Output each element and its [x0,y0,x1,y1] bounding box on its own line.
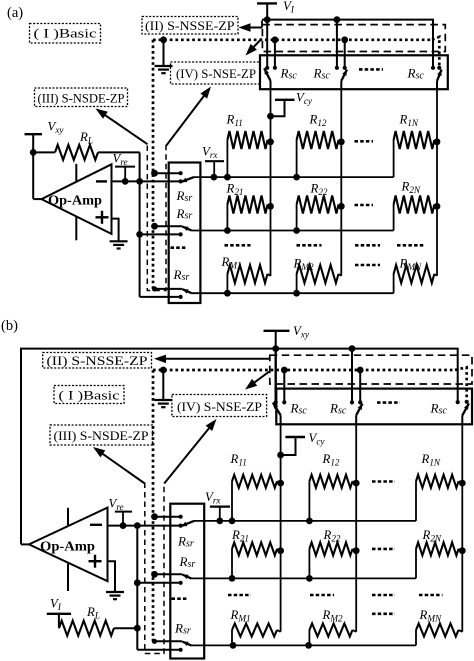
wire row2 (a) [192,230,394,232]
node row2 lower tap (b) [134,579,141,586]
resistor R12 (a) [297,131,345,177]
switch Rsc column1 (b) [273,349,287,425]
svg-text:(III) S-NSDE-ZP: (III) S-NSDE-ZP [38,90,125,105]
ellipsis columns (a) [359,68,383,71]
wire row1 (a) [194,176,394,178]
op-amp minus input sign (b) [90,524,102,526]
scheme box (II) S-NSSE-ZP (b) [43,353,152,369]
resistor R21 (b) [232,542,284,578]
op-amp plus input sign (a) [96,211,109,224]
ellipsis rows gap mid (a) [355,244,380,247]
resistor RM2 (b) [309,624,356,646]
switch Rsr row1 (a) [155,171,195,183]
ground top (a) [155,40,173,73]
resistor RM2 (a) [297,265,342,293]
resistor R1N (b) [416,475,466,521]
svg-text:(III) S-NSDE-ZP: (III) S-NSDE-ZP [54,428,149,443]
svg-text:(IV) S-NSE-ZP: (IV) S-NSE-ZP [177,399,262,414]
arrow to (II) box (a) [239,21,263,32]
node row2 upper tap (b) [151,571,158,578]
svg-text:Op-Amp: Op-Amp [40,539,95,554]
terminal Vrx (a) [202,145,224,178]
resistor RL (a) [33,145,139,182]
panel label (b) [1,318,18,334]
label RM1 (b) [230,608,251,624]
resistor R21 (a) [227,196,274,231]
label Rsc columnN (b) [430,401,448,417]
label R2N (a) [401,180,421,196]
label R2N (b) [422,528,442,544]
label Rsr rowM (a) [173,267,190,283]
resistor R12 (b) [309,475,359,521]
label R22 (a) [310,182,328,198]
node R22 drop (b) [306,575,313,582]
ellipsis rows box (b) [172,597,189,600]
dashed region rows (b) [145,483,164,654]
arrow to (IV) box long (b) [164,419,216,484]
column switch box (a) [260,55,448,89]
label R1N (b) [421,452,441,468]
arrow to (III) box (b) [93,447,145,484]
scheme box (I) Basic (b) [54,386,124,404]
node Vxy / RL junction (a) [30,149,37,156]
svg-text:( I )Basic: ( I )Basic [59,387,120,402]
ellipsis columns (b) [377,401,400,404]
scheme box (II) S-NSSE-ZP [142,17,238,35]
wire inverting input line (b) [108,525,180,527]
ellipsis rows box (a) [171,246,188,249]
label RMN (b) [419,608,442,624]
node feedback junction (a) [136,178,143,185]
node row1 upper tap (a) [151,170,158,177]
label R1N (a) [399,113,419,129]
zero-potential dotted bus (b) [153,367,467,641]
scheme box (I) Basic [30,24,101,44]
node row2 lower tap (a) [136,231,143,238]
terminal Vrx (b) [205,490,230,521]
dashed region rows (a) [147,146,166,291]
ellipsis row2 gap (b) [372,548,395,551]
wire output loop border (b) [21,349,458,545]
node RM1 drop (b) [230,642,237,649]
ellipsis rows gap mid2 (a) [355,264,380,267]
node col2 Vxy tap (b) [349,345,356,352]
terminal VI (b) [47,597,71,629]
arrow to (IV) box short (b) [245,372,269,390]
scheme box (III) S-NSDE-ZP [35,88,128,107]
resistor RMN (a) [394,265,437,293]
resistor R2N (a) [394,196,441,231]
ellipsis rows gap col1 (b) [228,594,251,597]
ellipsis rows gap colN (a) [397,244,424,247]
wire op-amp output to Vxy (a) [33,198,41,200]
node RM1 drop (a) [224,290,231,297]
label RM2 (a) [293,257,314,273]
label Rsr rowM (b) [174,621,191,637]
label RMN (a) [399,257,422,273]
node col2 right contact tap (b) [357,367,364,374]
resistor R22 (a) [297,196,345,231]
label R12 (b) [322,452,340,468]
column switch box (b) [276,389,472,425]
resistor R11 (a) [227,131,274,177]
op-amp U1 (a) [42,164,112,240]
row switch box (a) [169,163,201,304]
zero-potential dotted bus (a) [153,37,439,289]
label Rsr row1 (a) [176,188,193,204]
ellipsis rows gap mid (b) [372,594,395,597]
switch Rsc column2 (b) [350,349,363,425]
resistor R2N (b) [416,542,466,578]
scheme box (IV) S-NSE-ZP [171,62,261,84]
node RM2 drop (b) [305,642,312,649]
node R12 drop (b) [306,518,313,525]
arrow to (IV) box long (a) [166,87,211,147]
switch Rsr row2 (b) [137,574,191,585]
switch Rsr row1 (b) [155,515,195,528]
node col2 right contact tap (a) [341,36,348,43]
op-amp minus input sign (a) [96,180,107,182]
label Rsr row2 (b) [179,554,196,570]
dashed region box (II) bus (a) [262,25,445,52]
arrow to (IV) box short (a) [246,39,262,56]
wire column2 (a) [340,89,342,276]
node col2 VI tap (a) [334,16,341,23]
svg-text:(II) S-NSSE-ZP: (II) S-NSSE-ZP [145,18,235,33]
label R21 (b) [231,528,249,544]
switch Rsc columnN (a) [431,66,442,89]
op-amp U2 (b) [29,508,108,591]
panel label (a) [7,5,23,21]
ellipsis rows gap col2 (a) [297,244,322,247]
node R11 drop (a) [224,174,231,181]
dashed region box (II) bus (b) [270,355,472,384]
wire column1 (b) [280,424,282,632]
svg-text:( I )Basic: ( I )Basic [34,26,97,41]
node R21 drop (a) [224,227,231,234]
node row2 upper tap (a) [151,223,158,230]
node rowM upper tap (b) [152,639,157,644]
resistor R11 (b) [232,475,284,521]
node R22 drop (a) [293,227,300,234]
node ground tap on dotted bus (b) [160,367,167,374]
node R11 drop (b) [229,518,236,525]
wire columnN (a) [436,89,438,276]
terminal Vxy (a) [25,120,65,200]
switch Rsr rowM (b) [137,641,191,652]
label RL (b) [86,605,100,621]
switch Rsr rowM (a) [140,289,192,299]
node Vrx (b) [216,518,223,525]
resistor RL (b) [59,621,137,636]
ellipsis rows gap mid2 (b) [372,612,395,615]
resistor R22 (b) [309,542,359,578]
wire Vre bus vertical (b) [136,526,138,650]
resistor RM1 (a) [227,265,270,293]
node ground tap on dotted bus (a) [160,36,167,43]
svg-text:(II) S-NSSE-ZP: (II) S-NSSE-ZP [47,353,148,368]
ellipsis row2 gap (a) [355,204,374,207]
terminal Vre (b) [109,496,133,525]
node RL junction (b) [134,625,141,632]
label RL (a) [79,130,93,146]
arrow to (III) box (a) [96,109,148,145]
row switch box (b) [170,504,204,659]
label Rsc columnN (a) [407,66,425,82]
wire inverting input line (a) [112,180,180,182]
node Vre (b) [120,522,127,529]
node col1 right contact tap (b) [281,367,288,374]
scheme box (III) S-NSDE-ZP (b) [50,425,153,445]
node Vrx (a) [211,174,218,181]
terminal Vcy (a) [267,91,313,120]
voltage source VI (a) [257,0,295,20]
terminal Vcy (b) [277,431,325,458]
wire column1 (a) [270,89,272,276]
resistor R1N (a) [394,131,441,177]
wire op-amp output (b) [21,543,29,545]
node R21 drop (b) [229,575,236,582]
label Op-Amp (a) [48,193,102,208]
node rowM upper tap (a) [152,286,157,291]
label Rsr row2 (a) [176,206,193,222]
label R11 (a) [226,113,243,129]
ellipsis rows gap colN (b) [419,594,443,597]
wire columnN (b) [461,424,463,632]
ellipsis row1 gap (b) [372,480,395,483]
label RM2 (b) [322,608,343,624]
ground top (b) [154,370,172,407]
node R12 drop (a) [293,174,300,181]
label R21 (a) [226,182,244,198]
label Rsr row1 (b) [177,534,194,550]
arrow to (II) box (b) [154,355,270,364]
switch Rsr row2 (a) [140,226,192,236]
label RM1 (a) [221,255,242,271]
wire plus input to ground (a) [112,219,119,241]
wire column2 (b) [355,424,357,632]
ellipsis rows gap col1 (a) [225,244,251,247]
label R22 (b) [323,528,341,544]
switch Rsc column1 (a) [264,20,277,90]
wire rowM (a) [192,292,394,294]
terminal Vxy (b) [264,324,310,349]
label R12 (a) [309,113,327,129]
resistor RM1 (b) [232,624,281,646]
svg-text:(IV) S-NSE-ZP: (IV) S-NSE-ZP [176,66,256,81]
svg-text:(a): (a) [7,5,23,21]
scheme box (IV) S-NSE-ZP (b) [172,395,267,417]
switch Rsc column2 (a) [335,20,347,90]
op-amp plus input sign (b) [89,555,102,568]
wire row2 (b) [192,577,417,579]
svg-text:Op-Amp: Op-Amp [48,193,102,208]
terminal Vre (a) [113,151,136,181]
node Vre (a) [122,178,129,185]
wire VI bus (a) [262,20,433,67]
label Rsc column1 (b) [290,401,308,417]
ellipsis row1 gap (a) [355,140,374,143]
node VI tap (a) [264,16,271,23]
wire rowM (b) [192,644,417,646]
svg-text:(b): (b) [1,318,18,334]
resistor RMN (b) [416,624,462,646]
node feedback junction (b) [134,522,141,529]
ellipsis rows gap col2 (b) [310,594,334,597]
ground op-amp (b) [106,592,124,599]
wire row1 (b) [194,520,416,522]
wire Vre bus vertical (a) [139,181,141,297]
switch Rsc columnN (b) [456,400,469,425]
label R11 (b) [230,452,247,468]
label Rsc column2 (b) [329,401,347,417]
ground op-amp (a) [110,241,128,248]
label Rsc column1 (a) [280,66,298,82]
wire plus input to ground (b) [108,561,116,591]
label Rsc column2 (a) [313,66,331,82]
node Vxy tap (b) [272,345,279,352]
label Op-Amp (b) [40,539,95,554]
node col1 right contact tap (a) [272,36,279,43]
node row1 upper tap (b) [151,513,158,520]
node RM2 drop (a) [293,290,300,297]
